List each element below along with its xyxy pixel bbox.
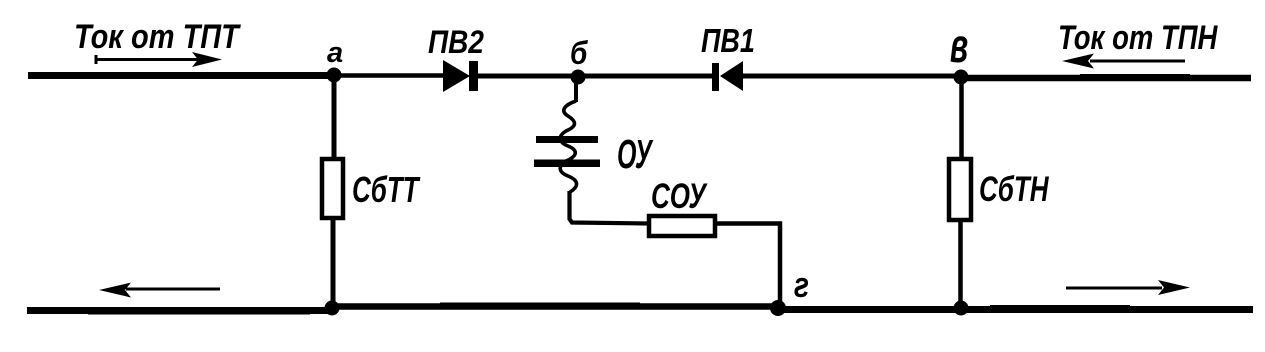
label PV1 [701, 22, 755, 60]
label node b [570, 36, 589, 71]
wire top bus node a to diode PV2 [334, 73, 445, 78]
label SbTN [979, 169, 1049, 209]
node v [954, 70, 969, 85]
svg-text:СбТТ: СбТТ [352, 169, 421, 210]
svg-text:СбТН: СбТН [979, 169, 1049, 209]
arrow: top-left pointing right [96, 52, 222, 67]
resistor SOU [649, 216, 715, 236]
label: Tok ot TPN (current from TPN) [1058, 18, 1218, 57]
node g [770, 300, 786, 316]
node junction bottom-right [954, 301, 969, 316]
wire bottom bus scan thickening left [88, 309, 310, 315]
label SbTT [352, 169, 421, 210]
label: Tok ot TPT (current from TPT) [74, 17, 241, 56]
diode PV1 [712, 61, 743, 91]
relay OU upper bar [536, 136, 598, 143]
svg-text:г: г [794, 264, 809, 304]
svg-text:б: б [570, 36, 589, 71]
label OU [617, 133, 653, 178]
wire resistor SOU right then down to node g [715, 224, 780, 309]
node a [327, 68, 342, 83]
arrow: top-right pointing left [1062, 54, 1185, 69]
wire top bus diode PV2 to diode PV1 [477, 74, 713, 79]
label node g [794, 264, 809, 304]
arrow: bottom-left pointing left [99, 283, 220, 298]
resistor SbTN [949, 159, 971, 220]
diode PV2 [443, 60, 478, 92]
relay OU lower bar [534, 160, 600, 168]
svg-text:ОУ: ОУ [617, 133, 653, 178]
svg-text:Ток от ТПТ: Ток от ТПТ [74, 17, 241, 56]
wire node b down to relay coil [574, 76, 578, 102]
node b [571, 70, 586, 85]
label node v [950, 20, 968, 73]
wire node a down to resistor SbTT [332, 76, 337, 158]
wire bottom bus scan thickening middle [440, 303, 640, 309]
svg-text:а: а [327, 37, 343, 69]
wire bottom bus left segment [27, 307, 336, 314]
wire top bus scan thickening right [1080, 74, 1190, 81]
wire node v down to resistor SbTN [959, 77, 964, 158]
wire top bus right segment [961, 75, 1251, 82]
resistor SbTT [322, 159, 343, 218]
wire resistor SbTT down to bottom bus [331, 218, 336, 308]
wire bottom bus right segment [778, 306, 1253, 313]
svg-text:ПВ2: ПВ2 [428, 25, 484, 60]
relay coil OU winding squiggle [560, 101, 576, 192]
svg-text:Ток от ТПН: Ток от ТПН [1058, 18, 1218, 57]
svg-text:ПВ1: ПВ1 [701, 22, 755, 60]
wire bottom bus scan thickening right [990, 305, 1130, 312]
wire top bus left segment [28, 72, 334, 79]
label SOU [651, 176, 708, 216]
wire coil down and right to resistor SOU [570, 191, 650, 224]
wire top bus diode PV1 to node v [742, 74, 961, 79]
svg-text:в: в [950, 20, 968, 73]
arrow: bottom-right pointing right [1066, 280, 1190, 295]
wire bottom bus middle segment [332, 303, 780, 310]
node junction bottom-left [325, 301, 340, 316]
svg-text:СОУ: СОУ [651, 176, 708, 216]
wire resistor SbTN down to bottom bus [958, 220, 963, 308]
label PV2 [428, 25, 484, 60]
